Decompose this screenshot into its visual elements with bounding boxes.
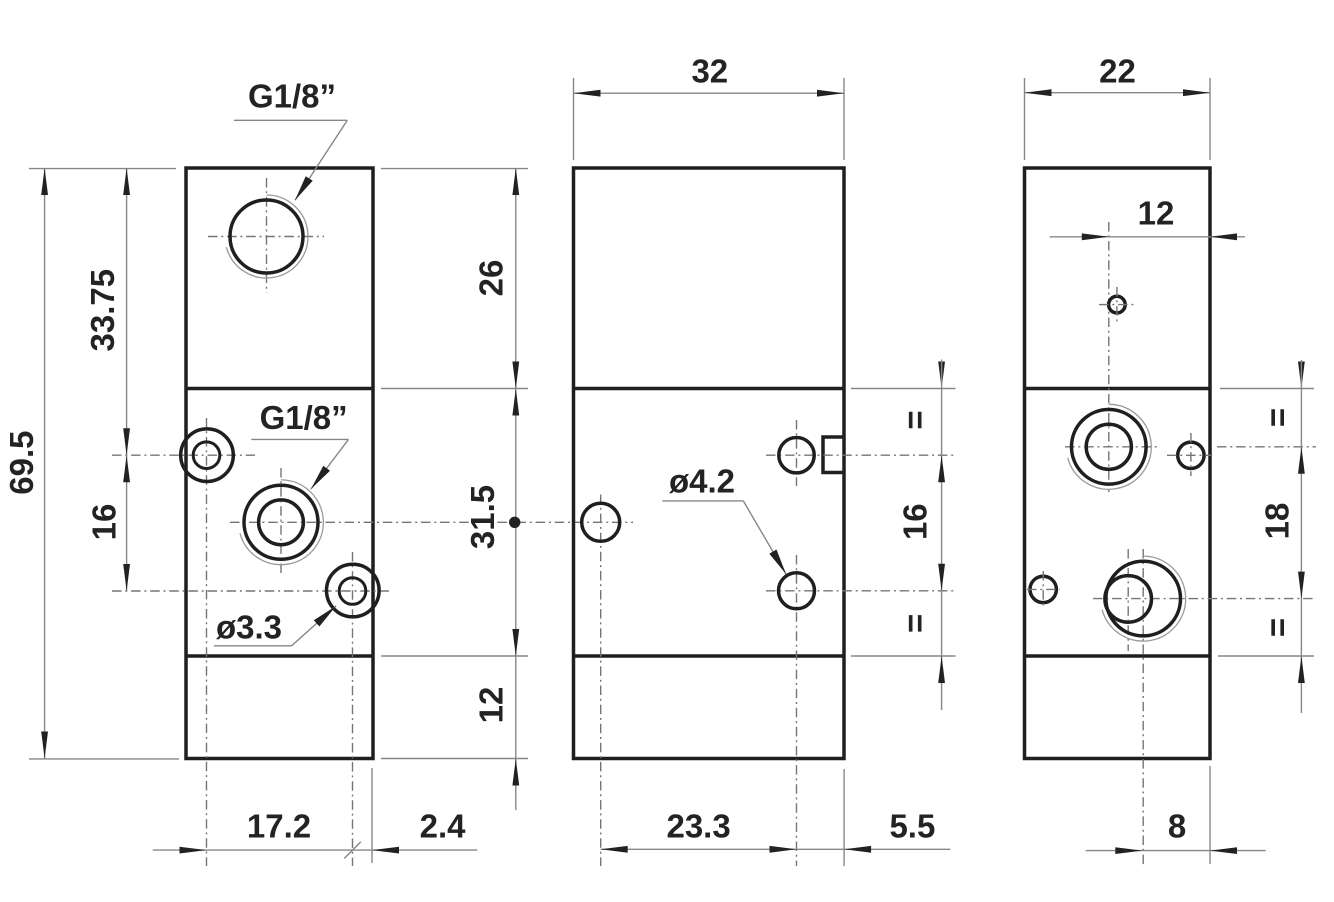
dimension equals top front [897, 362, 946, 430]
svg-text:17.2: 17.2 [247, 808, 311, 845]
hole diam 4.2 circle [779, 573, 815, 609]
dimension 12 right view [1050, 195, 1245, 241]
svg-text:18: 18 [1259, 503, 1296, 540]
dimension 69.5 [3, 168, 48, 759]
label diam 4.2 [662, 463, 786, 575]
left view lower parting line [186, 654, 373, 658]
hole front top right circle [779, 438, 814, 473]
port G1/8 bottom right view thread arc [1102, 556, 1186, 641]
svg-text:26: 26 [473, 260, 510, 297]
hole left circles [181, 429, 234, 482]
svg-text:22: 22 [1099, 53, 1136, 90]
hole front left circle [582, 503, 620, 541]
svg-text:33.75: 33.75 [84, 269, 121, 352]
svg-text:12: 12 [473, 687, 510, 724]
extension lines left of left view [29, 169, 179, 759]
svg-text:G1/8”: G1/8” [260, 399, 348, 436]
svg-text:2.4: 2.4 [420, 808, 467, 845]
port G1/8 top right view thread arc [1068, 404, 1152, 489]
svg-text:16: 16 [897, 503, 934, 540]
svg-text:16: 16 [86, 504, 123, 541]
dimension 18 [1259, 360, 1305, 713]
dimension 23.3 [601, 808, 951, 853]
right view body outline [1025, 168, 1211, 759]
dimension equals bottom right view [1259, 618, 1305, 683]
svg-text:12: 12 [1138, 195, 1175, 232]
dimension 22 [1025, 53, 1211, 161]
dimension 12 lower left view [473, 656, 520, 810]
svg-text:=: = [897, 614, 934, 633]
right view lower parting line [1025, 654, 1211, 658]
extension lines right of left view [381, 169, 528, 759]
dimension 31.5 with centre dot [464, 389, 520, 657]
svg-text:ø3.3: ø3.3 [216, 609, 282, 646]
hole diam 3.3 centerlines [112, 552, 390, 866]
port G1/8 top bore circle [230, 200, 303, 273]
svg-text:ø4.2: ø4.2 [669, 463, 735, 500]
dimension equals bottom front [897, 614, 946, 683]
main vertical centerline top right view [1108, 222, 1110, 492]
dimension 5.5 [844, 769, 935, 866]
dimension 33.75 [84, 168, 130, 455]
dimension 26 [473, 168, 520, 389]
port G1/8 top thread arc [226, 195, 308, 278]
label diam 3.3 [214, 606, 336, 646]
label G1/8 middle [251, 399, 348, 489]
hole diam 3.3 circles [327, 564, 380, 617]
port G1/8 top right view centerline [1065, 446, 1316, 448]
svg-text:=: = [897, 410, 934, 429]
svg-text:69.5: 69.5 [3, 430, 40, 494]
dimension 32 [574, 53, 845, 161]
front view upper parting line [574, 387, 845, 391]
dimension 16 right of front view [897, 360, 946, 711]
hole front top right centerlines [766, 420, 956, 486]
svg-text:G1/8”: G1/8” [248, 78, 336, 115]
svg-text:23.3: 23.3 [666, 808, 730, 845]
front view body outline [574, 168, 845, 759]
hole front left centerlines [600, 495, 602, 867]
extension lines right of front view [851, 389, 956, 657]
hole diam 4.2 centerlines [766, 555, 956, 866]
port G1/8 middle circles [244, 485, 318, 559]
svg-text:=: = [1259, 408, 1296, 427]
port G1/8 bottom right view bore circle [1106, 561, 1181, 636]
port G1/8 middle centerlines [230, 468, 633, 575]
svg-text:=: = [1259, 618, 1296, 637]
port G1/8 bottom right view centerlines [1093, 549, 1316, 865]
svg-text:5.5: 5.5 [889, 808, 935, 845]
svg-text:31.5: 31.5 [464, 485, 501, 549]
side hole right view top [1167, 433, 1211, 476]
dimension equals top right view [1259, 362, 1305, 428]
svg-text:8: 8 [1168, 808, 1186, 845]
side hole right view bottom left [1027, 571, 1060, 608]
right view upper parting line [1025, 387, 1211, 391]
port G1/8 top centerlines [208, 178, 324, 293]
svg-text:32: 32 [691, 53, 728, 90]
dimension 2.4 [372, 768, 466, 863]
pilot hole top right view [1099, 287, 1136, 322]
hole left centerlines [112, 418, 255, 866]
offset inner bore right view [1105, 576, 1152, 623]
label G1/8 top [234, 78, 347, 201]
left view upper parting line [186, 387, 373, 391]
dimension 16 left [86, 455, 131, 591]
port G1/8 top right view circles [1072, 410, 1147, 485]
dimension 8 [1086, 766, 1266, 864]
port G1/8 middle thread arc [240, 480, 323, 565]
dimension 17.2 [153, 808, 478, 859]
front view lower parting line [574, 654, 845, 658]
slot on right edge of front view [823, 437, 844, 473]
left view body outline [186, 168, 373, 759]
extension lines right of right view [1218, 389, 1314, 657]
